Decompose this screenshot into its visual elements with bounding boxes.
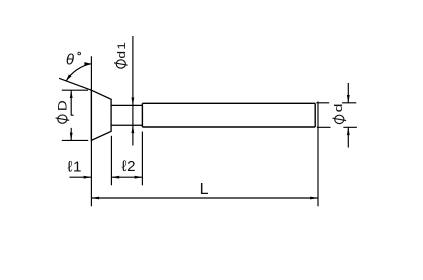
neck top edge xyxy=(111,104,142,106)
l-dims extension line at head right face xyxy=(110,136,112,186)
label degree symbol xyxy=(78,52,81,55)
label phiD: phi symbol xyxy=(56,115,70,123)
angle extension line (slant) xyxy=(59,78,91,90)
arrowhead phiD up xyxy=(70,90,73,98)
arrowhead arc upper-right xyxy=(84,62,91,65)
L dimension line xyxy=(91,197,318,199)
arrowhead l2 left xyxy=(111,176,119,179)
phiD extension tick bottom xyxy=(62,139,88,141)
arrowhead phid1 up xyxy=(132,125,135,133)
arrowhead arc lower-left xyxy=(66,74,72,81)
svg-text:D: D xyxy=(56,100,69,111)
l2 dimension line xyxy=(111,176,142,178)
svg-text:d1: d1 xyxy=(115,41,127,59)
arrowhead phid up xyxy=(347,127,350,135)
l1 dimension line xyxy=(70,176,92,178)
phid extension ticks right top xyxy=(316,102,356,104)
arrowhead phiD down xyxy=(70,133,73,141)
svg-text:d: d xyxy=(332,103,344,112)
arrowhead l1 right xyxy=(84,176,92,179)
L extension line right xyxy=(317,102,319,207)
svg-text:ℓ1: ℓ1 xyxy=(68,158,83,175)
shaft outline xyxy=(142,103,315,127)
label phid: phi symbol xyxy=(333,115,347,123)
phid extension ticks right bottom xyxy=(317,126,357,128)
svg-text:L: L xyxy=(200,181,209,198)
svg-text:θ: θ xyxy=(66,52,74,69)
arrowhead phid down xyxy=(347,95,350,103)
theta dimension arc xyxy=(66,64,91,81)
svg-text:ℓ2: ℓ2 xyxy=(122,158,137,175)
head left face + extension line (vertical at x=91.4) xyxy=(90,56,92,206)
arrowhead L right xyxy=(310,197,318,200)
arrowhead phid1 down xyxy=(132,98,135,106)
arrowhead l2 right xyxy=(135,176,143,179)
phid dimension line xyxy=(347,83,349,148)
label phid1: phi symbol xyxy=(114,60,128,68)
phiD extension tick top xyxy=(62,89,88,91)
l-dims extension line at shaft start xyxy=(141,132,143,186)
phid1 dimension line xyxy=(132,36,134,146)
head (frustum) outline xyxy=(91,90,111,140)
neck bottom edge xyxy=(111,124,142,126)
arrowhead L left xyxy=(91,197,99,200)
phiD dimension line xyxy=(71,90,73,140)
